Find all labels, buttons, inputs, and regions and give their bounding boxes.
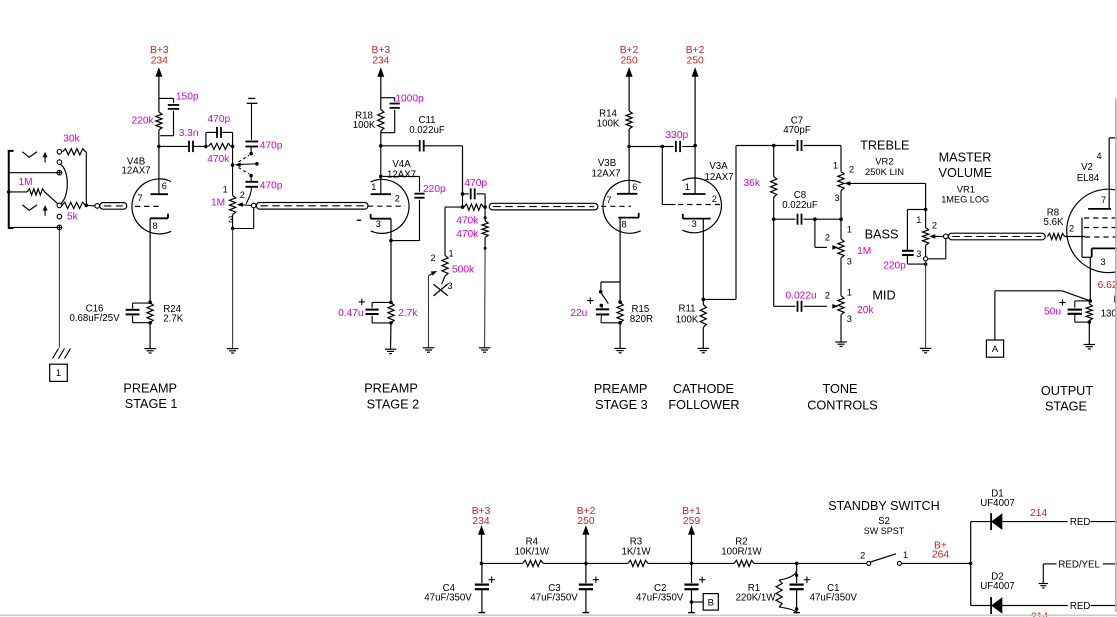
resistor R4 10K/1W	[482, 537, 586, 567]
wire treble pin3	[840, 191, 842, 220]
V3A cathode pin 3	[683, 214, 711, 300]
svg-text:1: 1	[916, 215, 921, 225]
svg-text:47uF/350V: 47uF/350V	[810, 593, 858, 604]
V3B cathode pin 8	[618, 213, 638, 302]
wire to node A	[995, 291, 1090, 340]
ground (500k wiper)	[423, 348, 435, 352]
junction C3 node	[584, 562, 588, 566]
junction V4A plate/220p	[379, 175, 383, 179]
capacitor C3 47uF/350V	[530, 563, 599, 612]
V4A cathode pin 3	[371, 214, 391, 302]
junction V2 cathode	[1089, 299, 1093, 303]
svg-text:EL84: EL84	[1077, 173, 1100, 184]
tube V4A labels	[387, 159, 416, 180]
junction 3.3n/470k left	[204, 145, 208, 149]
svg-text:V4A: V4A	[392, 159, 411, 170]
capacitor 220p (master)	[883, 210, 925, 272]
junction V4B cathode top	[148, 300, 152, 304]
net B+3 (psu)	[472, 506, 491, 564]
svg-text:B+2: B+2	[686, 45, 705, 56]
svg-text:R11: R11	[678, 303, 695, 314]
junction master cap bottom	[924, 262, 928, 266]
svg-text:7: 7	[607, 195, 612, 205]
V3B grid pin 7	[601, 195, 631, 206]
svg-text:PREAMP: PREAMP	[123, 382, 177, 396]
svg-text:214: 214	[1030, 508, 1047, 519]
capacitor 0.022u (mid)	[774, 290, 827, 311]
junction diode node	[969, 562, 973, 566]
transformer lead RED (bottom)	[1070, 601, 1117, 612]
svg-text:12AX7: 12AX7	[591, 169, 620, 180]
title MID	[872, 289, 895, 303]
svg-text:1: 1	[903, 550, 908, 560]
jack J2 tip switch arrow	[43, 205, 48, 216]
svg-text:7: 7	[1101, 195, 1106, 205]
potentiometer 500k	[431, 207, 475, 291]
junction V3A grid tap	[661, 145, 665, 149]
bass pot 1M	[825, 219, 871, 266]
svg-text:3: 3	[916, 249, 921, 259]
svg-text:1K/1W: 1K/1W	[621, 547, 651, 558]
svg-text:50u: 50u	[1044, 306, 1061, 317]
svg-text:1M: 1M	[19, 177, 33, 188]
jack J1 ring terminal	[57, 160, 62, 165]
capacitor 3.3n	[159, 128, 206, 152]
svg-text:4: 4	[1097, 151, 1102, 161]
capacitor 150p	[159, 91, 199, 135]
svg-text:22u: 22u	[570, 308, 587, 319]
svg-text:3: 3	[834, 193, 839, 203]
resistor 36k	[744, 146, 777, 220]
ground (R15)	[614, 323, 626, 353]
jack J2 tip terminal	[57, 203, 62, 208]
title MASTER VOLUME	[939, 150, 993, 204]
svg-text:470p: 470p	[208, 114, 231, 125]
svg-text:12AX7: 12AX7	[704, 172, 733, 183]
svg-text:0.47u: 0.47u	[338, 308, 364, 319]
svg-text:3: 3	[847, 314, 852, 324]
svg-text:0.022u: 0.022u	[786, 290, 817, 301]
resistor 470k (stage2 horizontal)	[456, 194, 485, 226]
svg-text:2: 2	[712, 194, 717, 204]
junction R18/C11 node	[379, 144, 383, 148]
net 214 (D2)	[1031, 612, 1048, 617]
junction 470k h left	[461, 205, 465, 209]
junction 36k bottom	[772, 217, 776, 221]
svg-text:1: 1	[223, 184, 228, 194]
svg-text:PREAMP: PREAMP	[364, 382, 418, 396]
junction V4A cathode top	[389, 301, 393, 305]
junction C4 node	[480, 562, 484, 566]
svg-text:3: 3	[1101, 257, 1106, 267]
ground wire jack sleeve	[58, 230, 60, 348]
svg-text:3: 3	[448, 281, 453, 291]
svg-text:100K: 100K	[597, 118, 620, 129]
svg-text:220K/1W: 220K/1W	[736, 593, 777, 604]
potentiometer 1M (volume)	[211, 165, 245, 225]
V2 cathode pin 3	[1082, 248, 1117, 301]
svg-text:220k: 220k	[132, 115, 155, 126]
svg-text:820R: 820R	[630, 314, 653, 325]
title PREAMP STAGE 1	[123, 382, 177, 412]
wire volume pin3	[232, 215, 234, 229]
svg-text:6: 6	[632, 182, 637, 192]
node box B	[692, 594, 719, 611]
capacitor 330p	[666, 130, 696, 152]
svg-text:R15: R15	[632, 304, 650, 315]
svg-text:259: 259	[683, 516, 700, 527]
svg-text:250: 250	[621, 56, 638, 67]
svg-text:STAGE 1: STAGE 1	[125, 397, 178, 411]
bright switch dashed throws	[239, 152, 253, 178]
jack J2 ring terminal	[57, 211, 79, 222]
svg-text:1: 1	[847, 224, 852, 234]
wire V3B cathode branch	[601, 282, 620, 290]
svg-text:RED: RED	[1070, 601, 1090, 612]
junction R15 bottom	[618, 321, 622, 325]
svg-text:234: 234	[372, 56, 389, 67]
svg-text:36k: 36k	[744, 178, 761, 189]
tube V2 envelope	[1067, 189, 1117, 272]
capacitor 470p (lower bright)	[246, 177, 283, 204]
svg-text:2: 2	[825, 233, 830, 243]
svg-text:500k: 500k	[452, 265, 475, 276]
svg-text:2: 2	[1069, 223, 1074, 233]
500k unused terminal X	[434, 284, 448, 296]
svg-text:RED: RED	[1070, 517, 1090, 528]
resistor R15 820R	[617, 302, 653, 325]
svg-text:0.022uF: 0.022uF	[409, 125, 445, 136]
capacitor 1000p	[381, 94, 424, 133]
junction C8/treble	[839, 217, 843, 221]
title PREAMP STAGE 2	[364, 382, 419, 412]
page edge (right)	[1115, 98, 1117, 612]
junction V3B plate node	[627, 145, 631, 149]
resistor 130 (V2 cathode)	[1086, 296, 1117, 321]
resistor 1M (input)	[9, 177, 58, 203]
tube V4A envelope	[371, 179, 409, 233]
svg-text:STAGE: STAGE	[1045, 399, 1087, 413]
svg-text:A: A	[992, 344, 999, 355]
svg-text:12AX7: 12AX7	[387, 170, 416, 181]
svg-text:VOLUME: VOLUME	[939, 166, 993, 180]
master pot VR1 1MEG	[916, 210, 937, 260]
capacitor C1 47uF/350V	[790, 563, 858, 612]
svg-text:2: 2	[395, 194, 400, 204]
svg-text:B+3: B+3	[150, 45, 169, 56]
svg-text:V3A: V3A	[709, 161, 728, 172]
svg-text:2: 2	[860, 550, 865, 560]
junction 0.022u node	[773, 218, 775, 220]
svg-text:470p: 470p	[464, 178, 487, 189]
svg-text:UF4007: UF4007	[980, 498, 1014, 509]
diode D2 UF4007	[971, 572, 1015, 615]
svg-text:12AX7: 12AX7	[121, 166, 150, 177]
junction V4A cathode bottom	[389, 321, 393, 325]
junction C2/box B	[690, 600, 694, 604]
junction C2 node	[690, 562, 694, 566]
svg-text:STAGE 3: STAGE 3	[595, 398, 648, 412]
ground (mid pot)	[835, 315, 847, 347]
svg-text:6: 6	[162, 181, 167, 191]
input jack J2 (bottom)	[22, 205, 37, 211]
ground (2.7k)	[385, 323, 397, 354]
V2 grid bracket	[1081, 218, 1083, 258]
svg-text:CATHODE: CATHODE	[673, 382, 734, 396]
svg-text:0.68uF/25V: 0.68uF/25V	[69, 313, 120, 324]
svg-text:5k: 5k	[67, 211, 79, 222]
ground wire (470k)	[479, 248, 491, 352]
junction C8 bass tap	[813, 217, 817, 221]
transformer lead RED/YEL	[1043, 559, 1117, 583]
svg-text:OUTPUT: OUTPUT	[1041, 384, 1093, 398]
resistor R1 220K/1W	[736, 570, 799, 614]
svg-text:0.022uF: 0.022uF	[782, 200, 818, 211]
svg-text:2: 2	[431, 253, 436, 263]
svg-text:264: 264	[932, 549, 949, 560]
wire V4A plate	[380, 146, 382, 194]
title PREAMP STAGE 3	[594, 382, 648, 412]
svg-text:1M: 1M	[211, 198, 225, 209]
svg-text:234: 234	[472, 516, 489, 527]
wire R1 to switch	[797, 562, 867, 564]
ground (R11)	[698, 327, 710, 353]
svg-text:UF4007: UF4007	[980, 581, 1014, 592]
svg-text:1: 1	[833, 161, 838, 171]
svg-text:TONE: TONE	[822, 382, 857, 396]
capacitor C16 0.68uF/25V	[69, 303, 150, 324]
wire curve J1 ring to J2 tip	[60, 164, 67, 203]
svg-text:1M: 1M	[857, 246, 871, 257]
tube V3B envelope	[603, 180, 641, 233]
capacitor C7 470pF	[774, 115, 841, 151]
wire jack J1 sleeve to frame	[9, 172, 57, 174]
wire R8 to grid	[1065, 236, 1085, 238]
capacitor C11 0.022uF	[381, 115, 463, 151]
wire diode branch	[970, 522, 972, 606]
wire treble to master	[925, 183, 927, 209]
resistor 2.7k (V4A cathode)	[388, 303, 418, 323]
junction C11 node top	[461, 192, 465, 196]
capacitor 0.47u	[338, 299, 391, 323]
svg-text:3.3n: 3.3n	[179, 128, 199, 139]
svg-text:FOLLOWER: FOLLOWER	[668, 398, 739, 412]
junction C1 node	[795, 562, 799, 566]
svg-text:B+1: B+1	[682, 506, 701, 517]
svg-text:2: 2	[849, 165, 854, 175]
V2 plate pin 7	[1088, 138, 1117, 209]
net 214 (D1)	[1030, 508, 1047, 519]
net B+2 (psu)	[577, 506, 596, 564]
svg-text:470k: 470k	[456, 229, 479, 240]
junction R15 top	[618, 300, 622, 304]
coax V4A out	[489, 203, 598, 210]
tube V3B labels	[591, 158, 620, 179]
svg-text:STAGE 2: STAGE 2	[367, 397, 420, 411]
wire bass to mid	[840, 258, 842, 296]
net B+3 (stage 1)	[150, 45, 169, 112]
V4B grid pin 7	[135, 193, 163, 206]
resistor 470k (stage2 vertical)	[456, 207, 488, 250]
svg-text:470pF: 470pF	[783, 125, 811, 136]
svg-text:B+3: B+3	[472, 506, 491, 517]
svg-text:3: 3	[692, 219, 697, 229]
ground (R24)	[144, 323, 156, 353]
ground (V2 cathode)	[1084, 322, 1096, 349]
tube V3A envelope	[682, 178, 721, 233]
no-connect stub (above 470p)	[247, 98, 258, 139]
svg-text:6.62: 6.62	[1098, 280, 1117, 291]
svg-text:100K: 100K	[353, 120, 376, 131]
capacitor 470p (upper bright)	[246, 141, 283, 152]
transformer lead RED (top)	[1070, 517, 1117, 528]
wire V3A grid	[662, 147, 675, 205]
title CATHODE FOLLOWER	[668, 382, 739, 412]
wire 30k to input node	[85, 152, 88, 206]
wire D1 to RED	[1002, 521, 1067, 523]
resistor R11 100K	[676, 299, 707, 327]
tube V2 labels	[1077, 162, 1100, 184]
svg-text:330p: 330p	[666, 130, 689, 141]
svg-text:234: 234	[151, 56, 168, 67]
V4B cathode pin 8	[150, 214, 168, 303]
title TREBLE	[860, 138, 909, 152]
svg-text:2: 2	[825, 290, 830, 300]
svg-text:1: 1	[685, 182, 690, 192]
resistor 220k (V4B plate)	[132, 112, 163, 146]
svg-text:1: 1	[449, 248, 454, 258]
svg-text:PREAMP: PREAMP	[594, 382, 648, 396]
resistor 470k (coupling)	[207, 143, 231, 165]
svg-text:100K: 100K	[676, 315, 699, 326]
V4B plate pin 6	[151, 146, 169, 194]
volume wiper arrow	[237, 202, 252, 207]
svg-text:TREBLE: TREBLE	[860, 138, 909, 152]
bass wiper arrow	[832, 245, 838, 250]
junction 330p/B+2	[693, 144, 697, 148]
capacitor C8 0.022uF	[774, 190, 841, 225]
svg-text:30k: 30k	[63, 134, 80, 145]
svg-text:8: 8	[622, 219, 627, 229]
svg-text:MASTER: MASTER	[939, 150, 992, 164]
wire bass wiper	[815, 219, 827, 247]
svg-text:100R/1W: 100R/1W	[721, 547, 762, 558]
wire coax shield to pin3	[928, 239, 946, 259]
svg-text:220p: 220p	[423, 184, 446, 195]
junction volume pin3	[231, 227, 235, 231]
junction master top	[924, 208, 928, 212]
capacitor 50u	[1044, 299, 1090, 322]
ground (volume pot)	[227, 349, 239, 353]
svg-text:B+2: B+2	[620, 45, 639, 56]
junction V4B plate node	[157, 145, 161, 149]
svg-text:130: 130	[1101, 308, 1117, 319]
treble wiper arrow	[844, 181, 925, 186]
capacitor C2 47uF/350V	[636, 563, 705, 612]
page edge (bottom)	[0, 614, 1117, 616]
svg-text:1: 1	[371, 182, 376, 192]
resistor R18 100K	[353, 110, 384, 146]
V3A plate pin 1	[683, 146, 706, 194]
V4A plate pin 1	[371, 182, 391, 194]
treble pot VR2 250K LIN	[833, 146, 904, 204]
net B+1 (psu)	[682, 506, 701, 564]
svg-text:250K LIN: 250K LIN	[865, 166, 904, 177]
V4A bias minus mark	[357, 219, 361, 221]
bright switch arrow	[235, 162, 259, 167]
capacitor 22u (bypass)	[570, 297, 620, 322]
input jack J1 (top)	[9, 151, 37, 228]
junction 220p/cathode	[389, 239, 393, 243]
resistor R2 100R/1W	[692, 537, 797, 567]
svg-text:20k: 20k	[857, 305, 874, 316]
svg-text:2: 2	[932, 221, 937, 231]
svg-text:47uF/350V: 47uF/350V	[636, 593, 684, 604]
jack J1 tip terminal	[57, 150, 62, 155]
junction input 1M/frame	[7, 190, 11, 194]
title TONE CONTROLS	[807, 382, 878, 412]
net B+2 (V3A)	[686, 45, 705, 146]
resistor R8 5.6K	[1044, 208, 1065, 240]
V3B plate pin 6	[617, 147, 638, 194]
svg-text:2.7k: 2.7k	[398, 308, 418, 319]
svg-text:VR2: VR2	[875, 155, 893, 166]
wire 470k node down	[232, 146, 234, 165]
svg-text:470p: 470p	[260, 141, 283, 152]
wire follower output	[703, 146, 773, 300]
capacitor 470p (coupling bypass)	[206, 114, 233, 146]
svg-text:470k: 470k	[456, 215, 479, 226]
resistor 30k	[63, 134, 86, 155]
svg-text:1MEG LOG: 1MEG LOG	[941, 195, 989, 205]
jack J2 sleeve terminal	[57, 225, 62, 230]
jack J1 tip switch arrow	[43, 152, 48, 163]
junction V2 cathode bottom	[1088, 320, 1092, 324]
ground wire (master)	[925, 261, 927, 348]
net 6.62 label	[1098, 280, 1117, 291]
wire 36k node down	[773, 219, 775, 306]
svg-text:5.6K: 5.6K	[1044, 217, 1064, 228]
svg-text:470k: 470k	[207, 154, 230, 165]
svg-text:1: 1	[56, 368, 61, 379]
svg-text:BASS: BASS	[865, 228, 899, 242]
resistor R14 100K	[597, 108, 633, 146]
svg-text:214: 214	[1031, 612, 1048, 617]
svg-text:V2: V2	[1081, 162, 1093, 173]
V4A grid pin 2	[368, 194, 405, 207]
svg-text:B+3: B+3	[371, 45, 390, 56]
coax V4B out	[251, 203, 368, 210]
junction V4B cathode bottom	[148, 321, 152, 325]
coax master out	[944, 233, 1046, 240]
junction input node	[85, 204, 89, 208]
junction 36k top	[772, 144, 776, 148]
title OUTPUT STAGE	[1041, 384, 1093, 414]
svg-text:470p: 470p	[260, 180, 283, 191]
V2 grids dashed	[1069, 218, 1117, 237]
net B+2 (stage 3)	[620, 45, 639, 111]
wire input node to coax	[86, 204, 95, 206]
tube V4B envelope	[132, 179, 171, 234]
switch S2 labels	[864, 516, 905, 536]
svg-text:VR1: VR1	[957, 184, 975, 195]
title BASS	[865, 228, 899, 242]
svg-text:250: 250	[687, 56, 704, 67]
svg-text:B: B	[708, 597, 714, 608]
tube V3A labels	[704, 161, 733, 183]
ground (RED/YEL)	[1039, 584, 1049, 588]
chassis ground (input)	[53, 349, 71, 359]
